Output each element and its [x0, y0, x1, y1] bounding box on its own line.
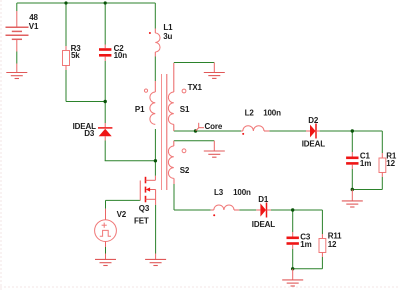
wire R11 top — [321, 210, 323, 234]
svg-text:100n: 100n — [263, 108, 281, 117]
node Core label leader — [196, 123, 204, 131]
wire C3 bottom — [292, 249, 294, 269]
junction R3 / top rail — [64, 1, 67, 4]
resistor R3 — [63, 46, 70, 70]
transformer TX1 — [144, 63, 186, 190]
wire C2 to D3 — [104, 61, 106, 102]
svg-text:1m: 1m — [360, 159, 371, 168]
svg-text:S2: S2 — [180, 166, 190, 175]
junction C3 top — [291, 208, 294, 211]
winding P1 — [154, 81, 156, 92]
core — [161, 74, 163, 190]
junction C3 bottom — [291, 267, 294, 270]
svg-text:TX1: TX1 — [188, 83, 203, 92]
svg-text:R11: R11 — [328, 231, 342, 240]
ground (V2) — [95, 259, 116, 265]
junction C2 / top rail — [104, 1, 107, 4]
wire S2 to L3 — [174, 209, 211, 211]
ground (S1 top) — [204, 63, 225, 79]
resistor R11 — [319, 234, 326, 257]
svg-text:12: 12 — [386, 159, 395, 168]
svg-text:S1: S1 — [180, 105, 190, 114]
wire C2 top — [104, 3, 106, 45]
inductor L1 — [149, 29, 160, 57]
junction C1 top — [351, 129, 354, 132]
battery V1 — [6, 11, 29, 72]
wire L1 top lead — [154, 3, 156, 29]
junction P1 bottom / Q3 drain — [154, 159, 157, 162]
diode D3 — [98, 123, 112, 141]
svg-text:L3: L3 — [214, 188, 224, 197]
wire D3 to drain node — [104, 141, 106, 161]
svg-text:L1: L1 — [163, 23, 173, 32]
capacitor C1 — [346, 152, 358, 169]
wire R1 top — [381, 131, 383, 153]
svg-text:Q3: Q3 — [139, 204, 150, 213]
svg-text:100n: 100n — [233, 188, 251, 197]
wire D2 to right column — [320, 130, 383, 132]
wire L2 to D2 — [269, 130, 306, 132]
svg-text:D2: D2 — [308, 116, 319, 125]
capacitor C2 — [99, 45, 111, 62]
wire V2 gate net — [106, 199, 141, 201]
svg-text:D1: D1 — [258, 195, 269, 204]
ground (C3) — [282, 269, 303, 286]
wire V1 top stub — [16, 3, 18, 11]
wire C3 top — [292, 210, 294, 232]
svg-text:5k: 5k — [71, 51, 80, 60]
wire R3/C2 bottom link — [66, 101, 105, 103]
wire R3 top — [65, 3, 67, 46]
wire S2 top to ground — [174, 140, 215, 142]
svg-text:12: 12 — [328, 240, 337, 249]
diode D2 — [306, 124, 320, 139]
winding S1 — [173, 63, 175, 92]
wire Q3 drain/source verticals — [155, 205, 157, 254]
junction R3-C2 bottom — [104, 100, 107, 103]
svg-text:10n: 10n — [114, 51, 128, 60]
wire L3 to D1 — [239, 209, 256, 211]
wire R1 bottom — [381, 177, 383, 190]
ground (S2 top) — [204, 141, 225, 157]
ground (C1/R1) — [342, 190, 363, 208]
junction C1 bottom — [351, 188, 354, 191]
svg-text:48: 48 — [29, 13, 38, 22]
svg-text:L2: L2 — [245, 108, 255, 117]
node junction dots — [64, 1, 354, 270]
wire D1 to C3/R11 — [271, 209, 322, 211]
diode D1 — [256, 203, 271, 218]
wire V2 bottom — [105, 247, 107, 254]
ground (V1) — [6, 73, 27, 79]
node Core junction — [194, 129, 197, 132]
ground (Q3) — [145, 254, 166, 266]
wire S1 top to ground — [174, 62, 215, 64]
source V2 — [95, 220, 117, 242]
wire L1-P1 link — [154, 57, 156, 82]
svg-text:V1: V1 — [29, 22, 39, 31]
svg-text:IDEAL: IDEAL — [302, 140, 326, 149]
svg-text:IDEAL: IDEAL — [252, 220, 276, 229]
wire S2 bottom lead down — [173, 184, 175, 210]
svg-text:FET: FET — [134, 217, 149, 226]
wire C1 bottom — [351, 169, 353, 190]
inductor L2 — [241, 126, 269, 135]
wire P1 bottom to junction to drain — [154, 129, 156, 176]
svg-text:1m: 1m — [300, 240, 311, 249]
wire C1 top — [351, 131, 353, 152]
inductor L3 — [211, 205, 240, 216]
resistor R1 — [379, 153, 386, 177]
svg-text:3u: 3u — [163, 32, 172, 41]
svg-text:Core: Core — [205, 122, 223, 131]
wire R11 bottom — [321, 257, 323, 269]
wire S1 bottom net (Core) — [174, 130, 241, 132]
winding S2 — [173, 141, 175, 146]
wire R3 bottom — [65, 70, 67, 102]
svg-text:P1: P1 — [135, 105, 145, 114]
capacitor C3 — [287, 232, 299, 249]
transistor Q3 — [140, 176, 155, 205]
svg-text:V2: V2 — [117, 210, 127, 219]
svg-text:D3: D3 — [84, 129, 95, 138]
